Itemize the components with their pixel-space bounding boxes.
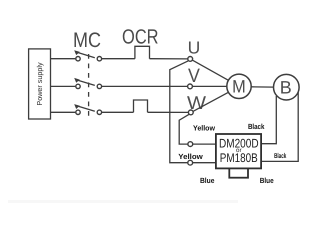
wire W to yellow terminal 1 [179, 114, 189, 144]
svg-text:Blue: Blue [260, 176, 274, 185]
wire phase1 to U [150, 58, 188, 60]
terminal W [188, 110, 193, 115]
contact MC pole1 right terminal [97, 57, 101, 61]
contact MC pole1 blade with arrow [74, 50, 95, 58]
OCR heater element phase3 [134, 100, 148, 112]
wire V to motor [193, 85, 227, 87]
wire phase2 from power supply [51, 85, 76, 87]
svg-text:U: U [188, 37, 201, 57]
svg-text:Black: Black [274, 152, 286, 160]
wire yellow 1 into box [193, 143, 217, 145]
svg-text:Yellow: Yellow [178, 152, 203, 161]
contact MC pole1 left terminal [76, 57, 80, 61]
contact MC pole2 blade with arrow [74, 78, 95, 86]
svg-text:PM180B: PM180B [220, 151, 258, 165]
motor M [227, 74, 251, 98]
wire phase3 to W [148, 111, 189, 113]
contact MC pole3 left terminal [76, 110, 80, 114]
terminal yellow 1 [188, 142, 193, 147]
wire yellow 2 into box [193, 162, 217, 164]
svg-text:Power supply: Power supply [35, 62, 44, 106]
svg-text:OCR: OCR [122, 26, 159, 49]
terminal yellow 2 [188, 160, 193, 165]
rectifier box DM200D/PM180B [216, 134, 261, 168]
contact MC pole2 right terminal [97, 84, 101, 88]
contact MC pole2 left terminal [76, 84, 80, 88]
terminal V [188, 84, 193, 89]
wire motor to brake [251, 86, 273, 88]
terminal U [188, 57, 193, 62]
svg-text:MC: MC [73, 29, 101, 52]
black wire 2 from brake to box [262, 92, 299, 161]
wire phase1 to OCR [102, 58, 135, 60]
svg-text:Blue: Blue [200, 176, 215, 185]
wire W to motor [193, 92, 228, 111]
svg-text:M: M [232, 77, 246, 97]
wire phase2 to V [102, 85, 188, 87]
wire phase3 from power supply [51, 111, 76, 113]
MC mechanical linkage dashed line [88, 54, 90, 118]
svg-text:Yellow: Yellow [193, 123, 215, 132]
wire phase3 to OCR [102, 111, 134, 113]
wire phase1 from power supply [51, 58, 76, 60]
OCR heater element phase1 [135, 46, 150, 58]
contact MC pole3 right terminal [97, 110, 101, 114]
svg-text:B: B [280, 78, 292, 98]
connector tab below box [229, 168, 248, 177]
svg-text:Black: Black [248, 122, 265, 131]
power supply box PS [29, 49, 51, 119]
wire U to motor [193, 60, 229, 80]
brake B [274, 74, 300, 100]
contact MC pole3 blade with arrow [74, 104, 95, 111]
black wire 1 from brake to box [262, 96, 277, 144]
wire U to yellow terminal 2 [170, 61, 188, 163]
faint scan artifact bottom [8, 200, 238, 203]
